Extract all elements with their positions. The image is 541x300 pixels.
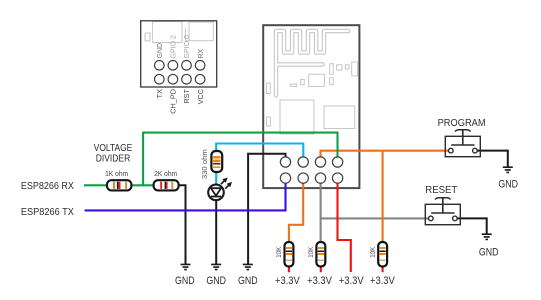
svg-text:RST: RST (182, 88, 191, 103)
pinout diagram outline (141, 21, 217, 87)
svg-text:DIVIDER: DIVIDER (96, 153, 131, 164)
resistor 2K ohm (154, 180, 179, 190)
ground symbol (module GND pin) (243, 264, 253, 269)
wire black 2K resistor to ground (179, 185, 186, 264)
pinout pin circles (2 rows of 4) (155, 61, 205, 84)
svg-text:+3.3V: +3.3V (370, 275, 395, 287)
wire orange GPIO0 to PROGRAM switch and pull-up (321, 151, 451, 248)
wire black LED cathode to ground (215, 192, 217, 264)
wire black PROGRAM switch to ground (475, 151, 508, 168)
wire red pull-up resistor leads to +3.3V (289, 258, 383, 272)
ground symbol (LED) (211, 264, 221, 269)
wire purple ESP8266 TX net (85, 178, 286, 210)
ground symbol (RESET) (482, 234, 492, 239)
wire gray RST net to RESET switch and pull-up (321, 178, 431, 248)
svg-text:PROGRAM: PROGRAM (438, 118, 486, 129)
svg-text:ESP8266 TX: ESP8266 TX (21, 207, 74, 218)
svg-text:GPIO 2: GPIO 2 (171, 35, 178, 58)
svg-text:+3.3V: +3.3V (275, 275, 300, 287)
svg-text:VCC: VCC (196, 89, 205, 104)
resistor 10K (CH_PD pull-up) (285, 242, 294, 267)
svg-text:GND: GND (479, 247, 499, 259)
svg-text:10K: 10K (306, 247, 315, 258)
svg-text:10K: 10K (274, 247, 283, 258)
svg-text:GPIO 0: GPIO 0 (184, 35, 191, 58)
wire cyan GPIO2 to LED resistor (216, 144, 303, 193)
svg-text:2K ohm: 2K ohm (154, 171, 177, 178)
ESP-01 PCB antenna trace (276, 31, 349, 96)
svg-text:10K: 10K (368, 247, 377, 258)
resistor 330 ohm (211, 151, 222, 172)
wire black GND pin1 to ground (248, 154, 285, 264)
svg-text:330 ohm: 330 ohm (200, 149, 209, 179)
resistor 10K (RST pull-up) (316, 242, 325, 267)
svg-text:GND: GND (206, 275, 226, 287)
pushbutton PROGRAM (445, 130, 480, 157)
svg-text:RESET: RESET (425, 185, 457, 196)
svg-text:+3.3V: +3.3V (339, 275, 364, 287)
svg-text:GND: GND (157, 43, 164, 59)
ground symbol (PROGRAM) (503, 167, 513, 172)
wire black RESET switch to ground (455, 218, 487, 234)
svg-text:ESP8266 RX: ESP8266 RX (21, 181, 74, 192)
resistor 10K (GPIO0 pull-up) (378, 242, 387, 267)
svg-text:GND: GND (238, 275, 258, 287)
svg-text:GND: GND (498, 179, 518, 191)
svg-text:CH_PD: CH_PD (169, 89, 178, 114)
pushbutton RESET (425, 198, 460, 225)
wire green ESP8266 RX net (84, 133, 338, 186)
ESP-01 on-board components (light gray) (267, 62, 358, 134)
LED D1 (208, 178, 232, 201)
ESP-01 module U1 outline (263, 25, 359, 188)
ESP-01 module pin circles (280, 157, 342, 183)
ground symbol (voltage divider) (181, 264, 191, 269)
pinout diagram board graphics (light gray) (145, 22, 213, 43)
svg-text:+3.3V: +3.3V (307, 275, 332, 287)
resistor 1K ohm (107, 180, 131, 190)
svg-text:GND: GND (175, 275, 195, 287)
wire red VCC to +3.3V (338, 178, 351, 272)
wire orange CH_PD pull-up (289, 178, 303, 248)
svg-text:RX: RX (198, 48, 205, 58)
svg-text:1K ohm: 1K ohm (105, 171, 128, 178)
svg-text:TX: TX (155, 89, 164, 98)
